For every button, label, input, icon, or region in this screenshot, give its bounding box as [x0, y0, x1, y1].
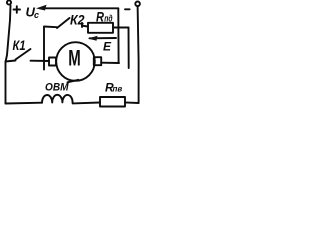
terminal plus (+Uc supply): [7, 0, 11, 4]
svg-text:К1: К1: [13, 37, 26, 53]
EMF arrow E shaft: [90, 37, 117, 39]
resistor Rpd body: [88, 23, 113, 33]
plus sign: [14, 9, 21, 11]
wire vertical V1 top wire to armature node: [117, 8, 119, 63]
svg-text:c: c: [34, 10, 39, 20]
wire between OVM and Rpv: [73, 102, 100, 105]
svg-text:пд: пд: [104, 14, 113, 24]
wire vertical V2 Rpd lead down to armature wire: [128, 28, 130, 69]
wire vertical K2 branch to armature node: [43, 27, 45, 70]
wire Rpv right lead to corner: [125, 102, 139, 105]
wire K1 contact to motor left brush: [31, 60, 50, 62]
wire K2 branch left segment: [44, 26, 57, 29]
wire K2 contact to Rpd: [82, 25, 88, 28]
wire motor right brush to node: [101, 62, 119, 64]
wire stub to K1 pivot: [6, 61, 16, 62]
terminal minus: [135, 2, 140, 7]
svg-text:ОВМ: ОВМ: [45, 82, 69, 94]
top wire with current arrow: [40, 7, 118, 9]
resistor Rpv body: [100, 97, 125, 107]
switch K2 fixed contact tick: [81, 23, 83, 27]
wire Rpd right lead: [113, 27, 129, 29]
wire bottom left segment: [6, 102, 43, 105]
switch K1 blade: [16, 49, 31, 60]
wire left side from + terminal down: [6, 6, 11, 104]
wire right side from - terminal down: [138, 6, 139, 103]
switch K2 blade: [57, 18, 70, 28]
svg-text:М: М: [68, 45, 81, 70]
inductor OVM field winding: [42, 95, 73, 103]
motor M circle: [56, 42, 95, 81]
svg-text:пв: пв: [113, 84, 123, 93]
arrowhead of EMF arrow E: [88, 36, 98, 41]
brush left: [49, 58, 56, 66]
arrowhead of top current arrow: [36, 5, 47, 11]
stray stroke over OVM label: [68, 80, 79, 83]
brush right: [94, 57, 101, 65]
minus sign: [125, 8, 130, 10]
svg-text:Е: Е: [103, 40, 112, 54]
svg-text:К2: К2: [70, 12, 85, 28]
